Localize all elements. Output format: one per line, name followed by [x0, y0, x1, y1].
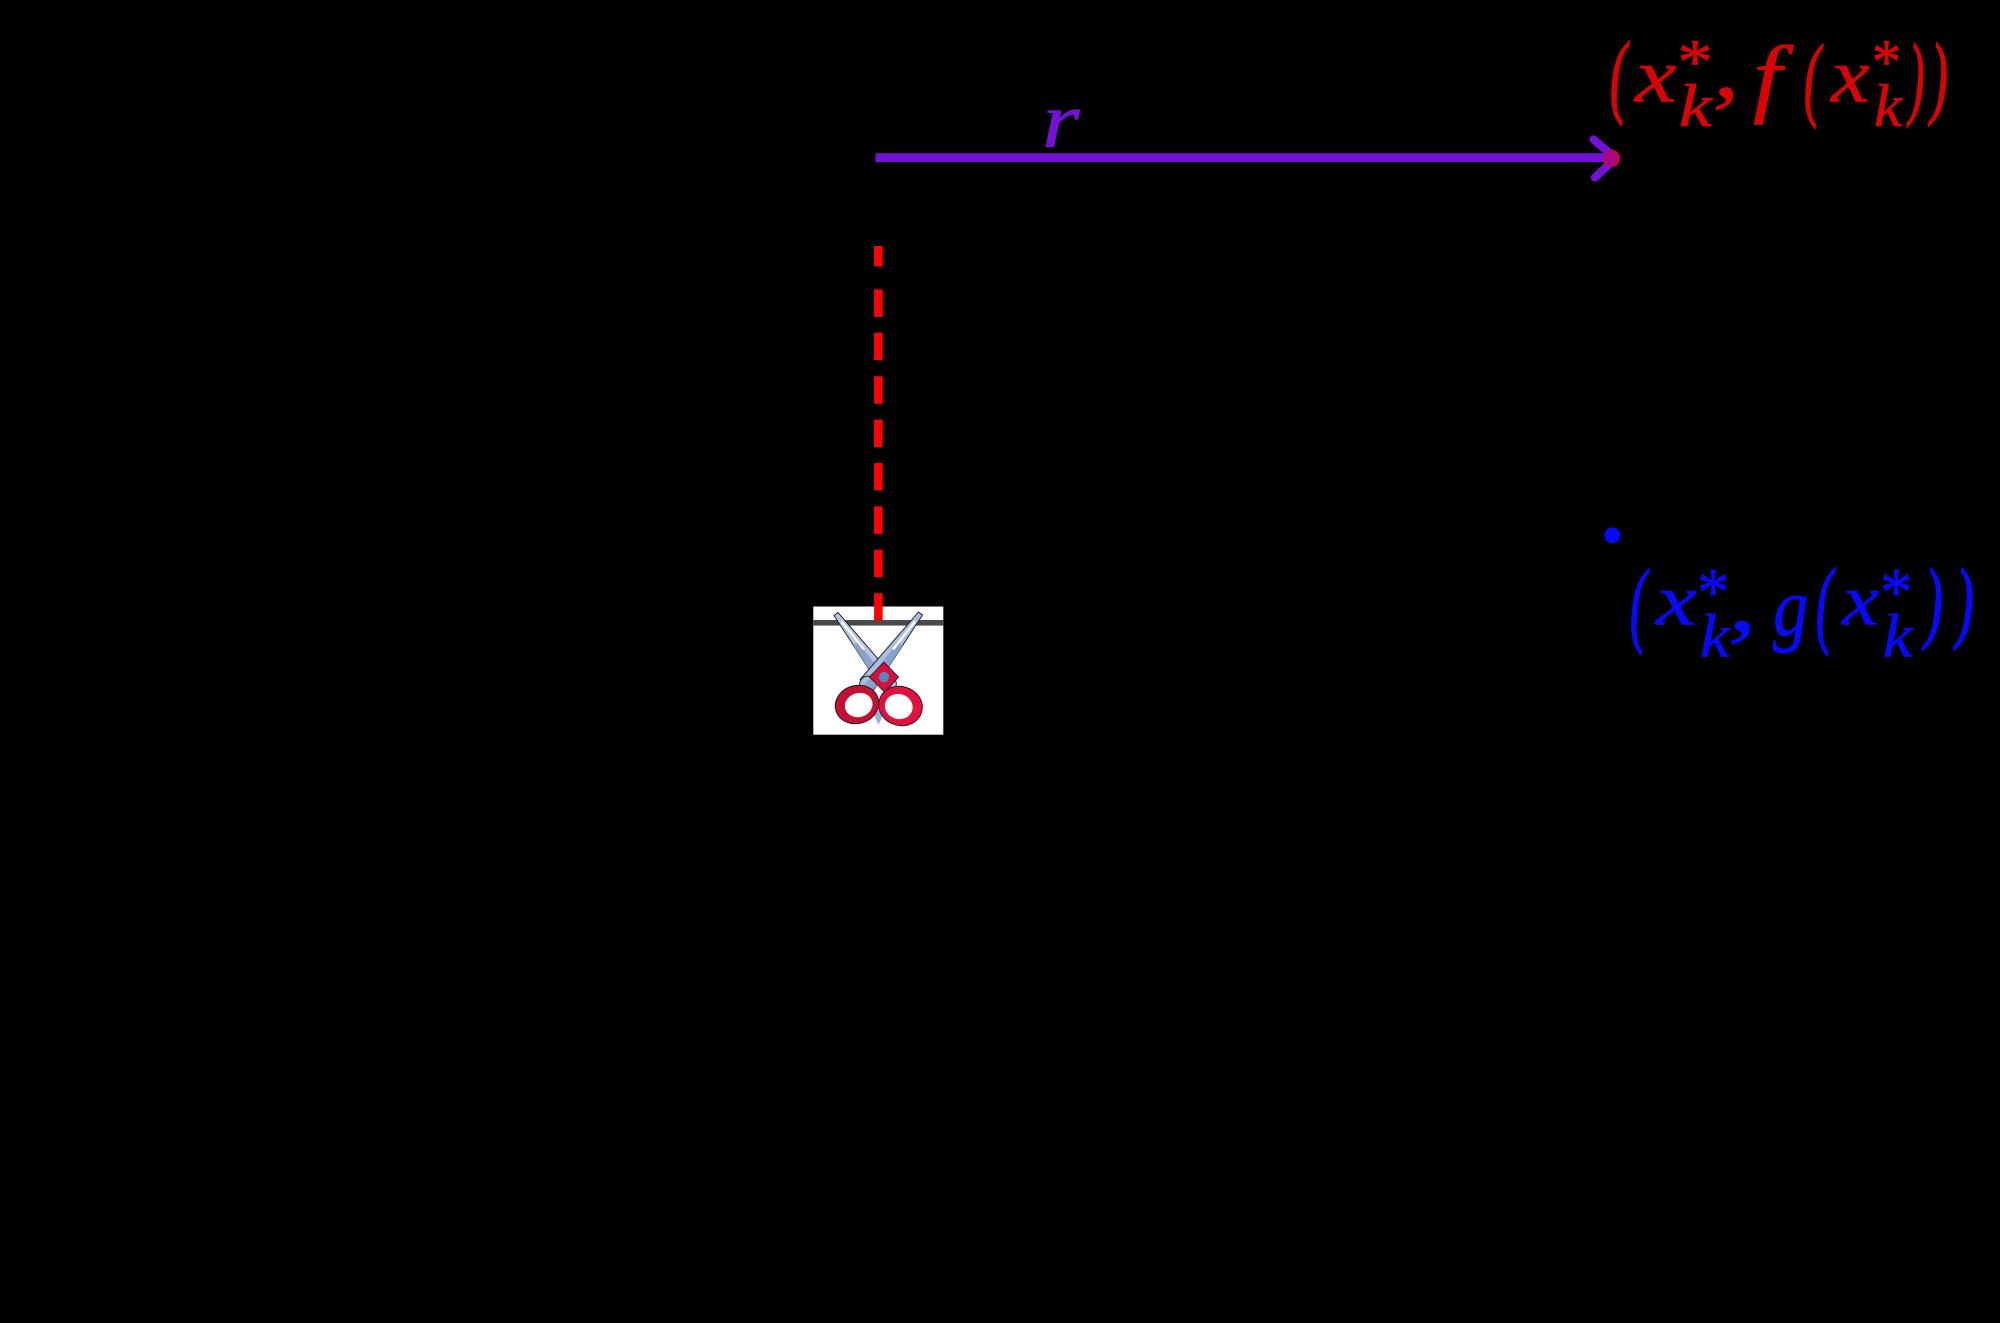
- white box (scissors icon background): [813, 607, 943, 735]
- right handle ring: [874, 681, 927, 731]
- red point tint overlay: [1603, 150, 1620, 167]
- pivot block: [870, 662, 899, 693]
- blue point label (x_k^*, g(x_k^*)): [1630, 556, 1646, 650]
- gray cut line: [813, 620, 943, 626]
- left handle ring: [831, 680, 884, 729]
- red dashed line: [874, 289, 883, 624]
- left blade: [834, 613, 896, 692]
- right blade: [860, 612, 923, 692]
- red point label (x_k^*, f(x_k^*)): [1610, 29, 1627, 121]
- arrow r (purple vector) : shaft: [876, 153, 1613, 162]
- arrow r : head barbs: [1594, 140, 1616, 178]
- blue point (x*k, g(x*k)): [1604, 527, 1620, 543]
- scissors icon: [831, 612, 927, 731]
- red dashed line : first short dash: [874, 246, 883, 267]
- label r above arrow: [1042, 82, 1079, 160]
- red point (x*k, f(x*k)): [1603, 150, 1620, 167]
- small blade tails between rings: [872, 710, 885, 725]
